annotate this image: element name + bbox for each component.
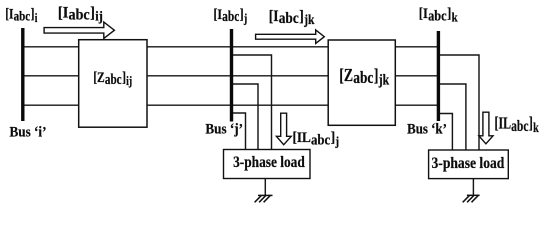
svg-text:[Iabc]j: [Iabc]j [214,6,248,26]
wire load j to ground [264,179,266,196]
label [ILabc]j [293,129,340,148]
bus k bar [437,31,440,121]
label 3-phase load k [432,155,506,172]
ground symbol k [463,195,480,202]
wire tap a from bus j to load j [232,55,272,150]
load box k [429,150,509,179]
svg-text:[Iabc]ij: [Iabc]ij [58,4,103,24]
svg-text:[Iabc]jk: [Iabc]jk [269,8,316,27]
ground symbol j [255,195,273,202]
bus i bar [21,28,24,121]
wire load k to ground [472,179,474,196]
wire phase b: box Zjk to bus k [395,75,438,77]
wire tap a from bus k to load k [438,55,479,150]
wire phase a: bus i to box Zij [23,46,79,48]
label Bus 'k' [407,121,447,137]
label [Zabc]ij [93,68,132,88]
label [Zabc]jk [339,67,389,88]
label Bus 'j' [205,121,243,137]
current arrow Ijk (hollow right arrow) [256,30,325,44]
current arrow Iij (hollow right arrow) [44,22,114,38]
svg-text:[ILabc]j: [ILabc]j [293,129,340,148]
label [Iabc]i [5,5,37,25]
svg-text:[ILabc]k: [ILabc]k [495,115,539,136]
svg-text:Bus ‘k’: Bus ‘k’ [407,121,447,137]
wire tap c from bus k to load k [438,114,452,151]
wire phase a: box Zij through bus j to box Zjk [147,46,328,48]
impedance box Zjk [328,40,395,125]
label Bus 'i' [10,124,47,140]
impedance box Zij [79,40,147,128]
bus j bar [230,29,233,122]
svg-text:[Iabc]i: [Iabc]i [5,5,37,25]
label [ILabc]k [495,115,539,136]
wire phase b: bus i to box Zij [23,75,79,77]
svg-text:[Iabc]k: [Iabc]k [419,6,458,24]
wire tap b from bus j to load j [232,84,259,150]
load box j [224,150,311,179]
load current arrow ILj (hollow down arrow) [276,113,291,145]
wire tap c from bus j to load j [232,113,246,150]
wire tap b from bus k to load k [438,84,466,150]
wire phase a: box Zjk to bus k [395,46,438,48]
wire phase c: bus i to box Zij [23,104,79,106]
label [Iabc]k [419,6,458,24]
label 3-phase load j [233,154,305,171]
label [Iabc]jk [269,8,316,27]
svg-text:3-phase load: 3-phase load [432,155,506,172]
wire phase c: box Zjk to bus k [395,104,438,106]
svg-text:Bus ‘i’: Bus ‘i’ [10,124,47,140]
wire phase b: box Zij through bus j to box Zjk [147,75,328,77]
label [Iabc]ij [58,4,103,24]
label [Iabc]j [214,6,248,26]
svg-text:3-phase load: 3-phase load [233,154,305,171]
svg-text:Bus ‘j’: Bus ‘j’ [205,121,243,137]
wire phase c: box Zij through bus j to box Zjk [147,104,328,106]
load current arrow ILk (hollow down arrow) [479,112,493,144]
